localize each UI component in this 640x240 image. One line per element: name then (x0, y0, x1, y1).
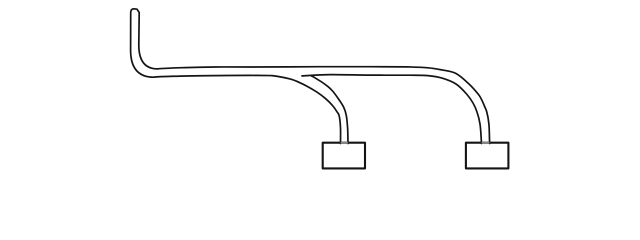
cable inner contour: right side of cap, inner left bend, top edge, right bend outer edge down to connector 2 right lead (139, 45, 490, 144)
connector 2 body (466, 143, 509, 169)
connector 2 lead entry highlight on box edge (483, 142, 489, 144)
cable harness drawing (0, 0, 640, 179)
bottom edge resumed after branch crotch, into right bend inner edge, down to connector 2 left lead (302, 75, 482, 144)
branch inner edge from crotch down to connector 1 right lead (312, 76, 349, 144)
connector 1 body (323, 143, 365, 169)
cable outer contour: end cap, left side, left bend, bottom edge, branch outer edge down to connector 1 left lead (131, 9, 341, 144)
connector 1 lead entry highlight on box edge (342, 142, 348, 144)
